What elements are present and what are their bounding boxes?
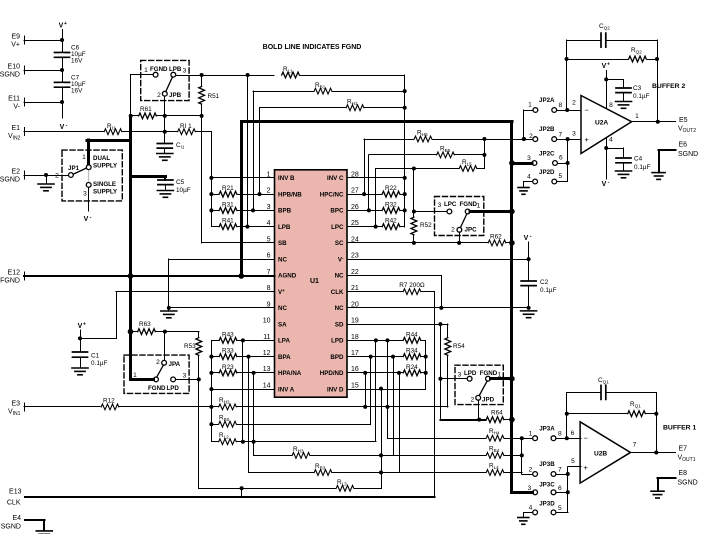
svg-text:2: 2 — [451, 226, 455, 233]
svg-text:+: + — [584, 463, 589, 472]
svg-text:27: 27 — [351, 188, 359, 195]
svg-text:2: 2 — [471, 397, 475, 404]
svg-text:BPC: BPC — [330, 208, 344, 215]
svg-text:JP2C: JP2C — [539, 151, 555, 158]
svg-text:DUAL: DUAL — [93, 155, 110, 162]
svg-text:INV B: INV B — [278, 175, 295, 182]
svg-text:NC: NC — [278, 256, 287, 263]
svg-text:LPC: LPC — [331, 224, 344, 231]
svg-text:R21: R21 — [222, 185, 234, 192]
svg-text:10µF: 10µF — [176, 187, 191, 194]
svg-text:R52: R52 — [420, 222, 432, 229]
svg-text:1: 1 — [529, 431, 533, 438]
svg-text:−: − — [585, 106, 590, 115]
svg-text:BPB: BPB — [278, 208, 292, 215]
svg-text:FGND: FGND — [150, 66, 168, 73]
svg-text:JP2A: JP2A — [539, 97, 555, 104]
svg-text:R7 200Ω: R7 200Ω — [399, 282, 425, 289]
svg-text:NC: NC — [335, 305, 344, 312]
svg-text:8: 8 — [558, 431, 562, 438]
svg-text:5: 5 — [558, 505, 562, 512]
svg-text:7: 7 — [267, 269, 271, 276]
svg-text:6: 6 — [267, 253, 271, 260]
svg-text:2: 2 — [156, 359, 160, 366]
svg-text:0.1µF: 0.1µF — [633, 93, 650, 100]
svg-text:SGND: SGND — [678, 480, 698, 487]
svg-text:R22: R22 — [385, 185, 397, 192]
svg-text:E11: E11 — [8, 96, 20, 103]
svg-text:E8: E8 — [679, 470, 688, 477]
svg-text:11: 11 — [263, 334, 270, 341]
svg-text:19: 19 — [351, 318, 359, 325]
svg-text:4: 4 — [529, 505, 533, 512]
svg-text:-: - — [530, 234, 532, 240]
svg-text:0.1µF: 0.1µF — [91, 360, 108, 367]
svg-text:R61: R61 — [140, 106, 152, 113]
svg-text:1: 1 — [82, 154, 86, 161]
svg-text:FGND: FGND — [460, 201, 478, 208]
svg-text:E12: E12 — [8, 270, 21, 277]
svg-text:C3: C3 — [633, 85, 642, 92]
svg-text:8: 8 — [559, 102, 563, 109]
svg-text:4: 4 — [527, 174, 531, 181]
svg-text:7: 7 — [633, 442, 637, 449]
svg-text:CLK: CLK — [331, 289, 344, 296]
svg-text:C2: C2 — [540, 279, 549, 286]
svg-text:+: + — [64, 21, 67, 27]
svg-text:R32: R32 — [385, 201, 397, 208]
svg-text:V: V — [602, 63, 607, 70]
svg-text:14: 14 — [263, 382, 271, 389]
svg-text:SGND: SGND — [0, 177, 20, 184]
svg-text:R12: R12 — [103, 398, 115, 405]
svg-text:SA: SA — [278, 321, 287, 328]
svg-text:1: 1 — [635, 113, 639, 120]
svg-text:SGND: SGND — [678, 151, 698, 158]
svg-text:INV C: INV C — [327, 175, 344, 182]
svg-text:BOLD LINE INDICATES FGND: BOLD LINE INDICATES FGND — [263, 44, 362, 51]
svg-text:LPB: LPB — [278, 224, 291, 231]
svg-text:1: 1 — [477, 203, 481, 210]
svg-text:6: 6 — [571, 430, 575, 437]
svg-text:E7: E7 — [679, 446, 688, 453]
svg-text:JPA: JPA — [169, 361, 181, 368]
svg-text:E4: E4 — [12, 515, 21, 522]
svg-text:7: 7 — [559, 132, 563, 139]
svg-text:-: - — [608, 180, 610, 186]
svg-text:V: V — [602, 181, 607, 188]
svg-text:3: 3 — [572, 131, 576, 138]
svg-text:-: - — [66, 123, 68, 129]
svg-text:6: 6 — [558, 485, 562, 492]
svg-text:SGND: SGND — [1, 524, 21, 531]
svg-text:+: + — [607, 62, 610, 68]
svg-text:3: 3 — [438, 202, 442, 209]
svg-text:R42: R42 — [385, 218, 397, 225]
svg-text:23: 23 — [351, 253, 359, 260]
svg-text:18: 18 — [351, 334, 359, 341]
svg-text:C1: C1 — [91, 353, 100, 360]
svg-text:15: 15 — [351, 382, 359, 389]
svg-text:4: 4 — [609, 137, 613, 144]
svg-text:V: V — [524, 235, 529, 242]
svg-text:8: 8 — [267, 285, 271, 292]
svg-text:1: 1 — [133, 372, 137, 379]
svg-text:R23: R23 — [222, 364, 234, 371]
svg-text:12: 12 — [263, 350, 271, 357]
svg-text:SGND: SGND — [0, 72, 20, 79]
svg-text:JP3A: JP3A — [539, 426, 555, 433]
svg-text:JPC: JPC — [465, 226, 478, 233]
svg-text:SC: SC — [335, 240, 344, 247]
svg-text:R62: R62 — [490, 233, 502, 240]
svg-text:BPD: BPD — [330, 354, 344, 361]
svg-text:JP3C: JP3C — [539, 482, 555, 489]
svg-text:LPA: LPA — [278, 338, 290, 345]
svg-text:JP2B: JP2B — [539, 126, 555, 133]
svg-text:0.1µF: 0.1µF — [540, 287, 557, 294]
svg-text:HPC/NC: HPC/NC — [320, 191, 344, 198]
svg-text:SD: SD — [335, 321, 344, 328]
svg-text:R24: R24 — [406, 364, 418, 371]
svg-text:LPB: LPB — [169, 66, 182, 73]
svg-text:E6: E6 — [679, 142, 688, 149]
svg-text:+: + — [83, 322, 86, 328]
svg-text:R33: R33 — [222, 348, 234, 355]
svg-text:6: 6 — [559, 155, 563, 162]
svg-text:BUFFER 1: BUFFER 1 — [663, 425, 696, 432]
svg-text:8: 8 — [609, 102, 613, 109]
svg-text:E5: E5 — [679, 117, 688, 124]
svg-text:-: - — [90, 215, 92, 221]
svg-text:JP1: JP1 — [68, 165, 80, 172]
svg-text:E13: E13 — [9, 489, 22, 496]
svg-text:10: 10 — [263, 318, 271, 325]
svg-text:V: V — [59, 23, 64, 30]
svg-text:2: 2 — [267, 188, 271, 195]
svg-text:E3: E3 — [11, 400, 20, 407]
svg-text:3: 3 — [183, 68, 187, 75]
svg-text:U1: U1 — [310, 278, 319, 285]
svg-text:26: 26 — [351, 204, 359, 211]
svg-text:3: 3 — [183, 373, 187, 380]
svg-text:3: 3 — [83, 190, 87, 197]
svg-text:FGND: FGND — [0, 278, 20, 285]
svg-text:AGND: AGND — [278, 273, 297, 280]
svg-text:CLK: CLK — [7, 500, 21, 507]
svg-text:RI 1: RI 1 — [180, 123, 192, 130]
svg-text:5: 5 — [571, 458, 575, 465]
svg-text:HPB/NB: HPB/NB — [278, 191, 302, 198]
svg-text:JP2D: JP2D — [539, 169, 555, 176]
svg-text:LPC: LPC — [444, 201, 457, 208]
svg-text:C4: C4 — [634, 156, 643, 163]
svg-text:0.1µF: 0.1µF — [634, 164, 651, 171]
svg-text:R51: R51 — [208, 93, 220, 100]
svg-text:1: 1 — [528, 102, 532, 109]
svg-text:E9: E9 — [11, 34, 20, 41]
svg-text:V-: V- — [13, 104, 20, 111]
svg-text:FGND: FGND — [148, 385, 166, 392]
svg-text:3: 3 — [527, 155, 531, 162]
svg-text:SB: SB — [278, 240, 287, 247]
svg-text:3: 3 — [267, 204, 271, 211]
svg-text:JPD: JPD — [482, 397, 495, 404]
svg-text:BPA: BPA — [278, 354, 291, 361]
svg-text:JP3B: JP3B — [539, 461, 555, 468]
svg-text:V: V — [84, 216, 89, 223]
svg-text:1: 1 — [144, 67, 148, 74]
svg-text:C5: C5 — [176, 179, 185, 186]
svg-text:INV D: INV D — [327, 386, 344, 393]
svg-text:21: 21 — [351, 285, 359, 292]
svg-text:SUPPLY: SUPPLY — [93, 189, 118, 196]
svg-text:U2A: U2A — [595, 120, 608, 127]
svg-text:16V: 16V — [71, 88, 83, 95]
svg-text:22: 22 — [351, 269, 359, 276]
svg-text:INV A: INV A — [278, 386, 295, 393]
svg-text:2: 2 — [572, 100, 576, 107]
svg-text:16V: 16V — [71, 58, 83, 65]
svg-text:7: 7 — [558, 467, 562, 474]
svg-text:LPD: LPD — [167, 385, 180, 392]
svg-text:U2B: U2B — [594, 450, 607, 457]
svg-text:NC: NC — [278, 305, 287, 312]
svg-text:E1: E1 — [11, 125, 20, 132]
svg-text:R63: R63 — [139, 321, 151, 328]
svg-text:LPD: LPD — [331, 338, 344, 345]
svg-text:BUFFER 2: BUFFER 2 — [652, 83, 685, 90]
svg-text:V+: V+ — [11, 42, 20, 49]
svg-text:V: V — [78, 323, 83, 330]
svg-text:NC: NC — [335, 273, 344, 280]
svg-text:R34: R34 — [406, 348, 418, 355]
svg-text:HPA/NA: HPA/NA — [278, 370, 302, 377]
svg-text:R54: R54 — [453, 343, 465, 350]
svg-text:2: 2 — [529, 466, 533, 473]
svg-text:5: 5 — [559, 173, 563, 180]
svg-text:2: 2 — [157, 92, 161, 99]
svg-text:E2: E2 — [11, 169, 20, 176]
svg-text:R44: R44 — [406, 331, 418, 338]
svg-text:JPB: JPB — [169, 92, 182, 99]
svg-text:V: V — [60, 124, 65, 131]
svg-text:R41: R41 — [222, 218, 234, 225]
svg-text:R31: R31 — [222, 201, 234, 208]
svg-text:R53: R53 — [184, 343, 196, 350]
svg-text:+: + — [585, 135, 590, 144]
svg-text:−: − — [584, 434, 589, 443]
svg-text:R43: R43 — [222, 331, 234, 338]
svg-text:SUPPLY: SUPPLY — [93, 163, 118, 170]
svg-text:HPD/ND: HPD/ND — [320, 370, 344, 377]
svg-text:R64: R64 — [491, 410, 503, 417]
svg-text:17: 17 — [351, 350, 359, 357]
svg-text:SINGLE: SINGLE — [93, 181, 116, 188]
svg-text:JP3D: JP3D — [539, 501, 555, 508]
svg-text:3: 3 — [528, 485, 532, 492]
svg-text:3: 3 — [458, 372, 462, 379]
svg-text:E10: E10 — [8, 64, 21, 71]
